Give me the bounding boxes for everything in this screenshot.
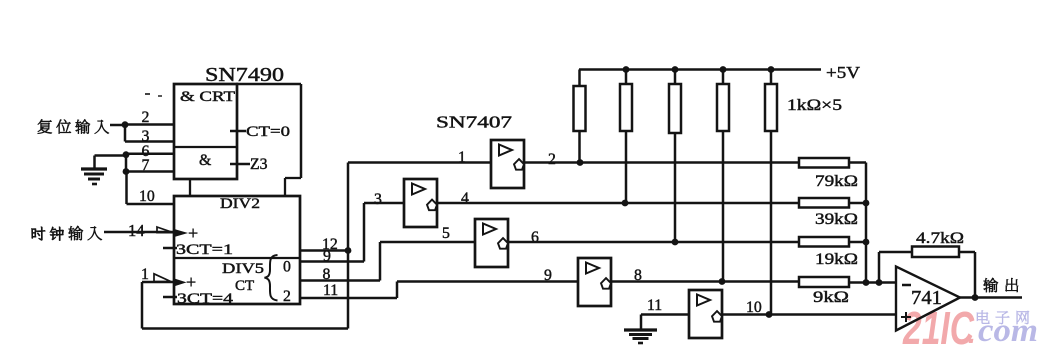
label output 0 <box>283 259 291 276</box>
junction reset/pin2 <box>122 121 129 128</box>
node: output label 输出 <box>983 278 1018 292</box>
svg-text:11: 11 <box>323 282 338 299</box>
value label 9kΩ <box>813 289 849 306</box>
wire pins 6-7 link <box>125 154 128 172</box>
label & <box>199 152 211 169</box>
pin label 14 <box>128 221 145 240</box>
svg-text:2: 2 <box>548 151 556 168</box>
junction rail R2 <box>623 66 630 73</box>
wire buffer b output <box>437 202 800 205</box>
label output 2 <box>283 288 291 305</box>
junction QA feedback <box>345 247 352 254</box>
pin label 9 buffer d in <box>544 267 552 284</box>
svg-text:Z3: Z3 <box>250 156 268 173</box>
junction R4 pullup <box>719 278 726 285</box>
wire reset label to junction <box>110 124 125 127</box>
junction pin7 <box>123 168 130 175</box>
wire buffer c output <box>508 241 800 244</box>
buffer U2a SN7407 box <box>491 140 524 188</box>
svg-text:741: 741 <box>911 287 942 309</box>
pin label 10 buffer e out <box>746 299 762 316</box>
svg-text:19kΩ: 19kΩ <box>815 251 858 268</box>
svg-text:.: . <box>968 318 976 349</box>
pin label 3 <box>142 128 150 145</box>
label 741 <box>911 287 942 309</box>
buffer U2e SN7407 box <box>689 290 722 338</box>
value label 19kΩ <box>815 251 858 268</box>
label + pin14 <box>188 223 198 243</box>
wire buffer d input <box>397 280 578 283</box>
node: reset input label 复位输入 <box>38 119 109 133</box>
wire buffer c input <box>380 241 475 244</box>
pin label 7 <box>142 157 150 174</box>
wire pin 9 QB <box>300 203 364 262</box>
label DIV5 <box>222 261 264 277</box>
resistor R2 1k pullup <box>620 70 632 204</box>
pin tick CT=0 <box>230 130 246 133</box>
wire summing bus vertical <box>865 163 868 283</box>
pin label 4 buffer b out <box>461 190 469 207</box>
label & CRT <box>180 89 235 105</box>
svg-text:14: 14 <box>128 221 145 240</box>
buffer U2b SN7407 box <box>404 179 437 227</box>
label + pin1 <box>186 272 196 292</box>
wire pin 3 <box>125 140 175 143</box>
value label 1kΩ×5 <box>787 97 842 114</box>
label 3CT=1 <box>176 242 233 258</box>
label CT <box>235 278 254 294</box>
wire buffer d output <box>611 280 800 283</box>
junction gnd/pin6 <box>123 151 130 158</box>
pin label 9 <box>323 248 331 265</box>
svg-text:3CT=1: 3CT=1 <box>176 242 233 258</box>
resistor R3 1k pullup <box>669 70 681 243</box>
buffer U2d SN7407 box <box>578 258 611 306</box>
speck artifact <box>145 94 162 96</box>
junction rail R4 <box>720 66 727 73</box>
op-amp U3 741 triangle <box>896 267 960 331</box>
pin label 11 <box>323 282 338 299</box>
pin label 2 buffer a out <box>548 151 556 168</box>
svg-text:DIV5: DIV5 <box>222 261 264 277</box>
IC U1 SN7490 counter section <box>174 196 300 304</box>
pin tick 3CT=1 <box>163 247 177 250</box>
junction feedback summing <box>876 279 883 286</box>
svg-text:1: 1 <box>141 266 149 283</box>
wire pin 7 <box>126 170 175 173</box>
svg-text:+: + <box>188 223 198 243</box>
pin label 1 <box>141 266 149 283</box>
power +5V rail <box>579 68 821 71</box>
label +5V <box>826 63 861 82</box>
resistor R4 1k pullup <box>717 70 729 282</box>
wire clock pin 14 <box>104 231 174 234</box>
pin label 3 buffer b in <box>374 191 382 208</box>
svg-text:CT=0: CT=0 <box>246 124 290 140</box>
junction rail R3 <box>672 66 679 73</box>
svg-text:4.7kΩ: 4.7kΩ <box>916 230 964 247</box>
resistor R6 79k <box>799 158 866 168</box>
pin label 12 <box>322 236 338 253</box>
pin label 6 buffer c out <box>531 229 539 246</box>
label 3CT=4 <box>177 291 234 307</box>
junction R3 pullup <box>672 239 679 246</box>
wire pin 12 QA <box>300 249 348 252</box>
pin label 8 <box>323 266 331 283</box>
svg-text:4: 4 <box>461 190 469 207</box>
svg-text:CT: CT <box>235 278 254 294</box>
op-amp inverting input mark <box>902 284 911 287</box>
resistor R9 9k <box>799 277 897 287</box>
IC U1 SN7490 upper reset section <box>174 84 301 196</box>
ground GND2 <box>624 315 657 344</box>
label CT=0 <box>246 124 290 140</box>
op-amp non-inverting input mark <box>901 312 911 322</box>
wire pin7 to pin10 link <box>125 172 128 205</box>
svg-text:10: 10 <box>139 188 155 205</box>
ground GND1 <box>81 156 126 185</box>
wire buffer e output to op-amp + <box>721 313 897 316</box>
wire op-amp output <box>960 296 1022 299</box>
resistor R5 1k pullup <box>765 70 777 315</box>
watermark 电子网 text <box>977 310 1029 324</box>
pin label 2 <box>142 109 150 126</box>
junction output feedback <box>972 294 979 301</box>
wire buffer a input <box>348 161 491 164</box>
resistor R8 19k <box>799 237 866 247</box>
wire pin 8 QC <box>300 242 380 281</box>
wire pin 11 QD <box>300 282 397 299</box>
node: clock input label 时钟输入 <box>31 226 101 241</box>
wire clock pin 1 <box>142 281 174 284</box>
pin tick Z3 <box>230 163 250 166</box>
junction R5 pullup <box>766 311 773 318</box>
brace CT outputs <box>265 255 278 301</box>
junction R2 pullup <box>622 200 629 207</box>
wire buffer e input <box>641 313 689 316</box>
svg-text:DIV2: DIV2 <box>220 196 260 212</box>
svg-text:& CRT: & CRT <box>180 89 235 105</box>
value label 4.7kΩ <box>916 230 964 247</box>
clock arrow pin 1 <box>154 274 187 287</box>
watermark 21IC.com logo <box>902 302 1038 354</box>
svg-text:9kΩ: 9kΩ <box>813 289 849 306</box>
junction bus R7 <box>863 200 870 207</box>
junction rail R5 <box>768 66 775 73</box>
wire pins 2-3 link <box>124 125 127 142</box>
pin label 1 buffer a in <box>458 149 466 166</box>
svg-text:39kΩ: 39kΩ <box>815 211 858 228</box>
wire pin 2 <box>125 123 175 126</box>
pin label 11 buffer e in <box>647 297 662 314</box>
junction bus 9k summing <box>863 279 870 286</box>
junction bus R8 <box>863 239 870 246</box>
wire pin 10 <box>127 203 176 206</box>
svg-text:SN7407: SN7407 <box>436 113 512 132</box>
resistor R1 1k pullup <box>574 70 586 163</box>
junction R1 pullup <box>577 159 584 166</box>
pin label 10 <box>139 188 155 205</box>
svg-text:11: 11 <box>647 297 662 314</box>
svg-text:3CT=4: 3CT=4 <box>177 291 234 307</box>
pin label 5 buffer c in <box>442 225 450 242</box>
svg-text:1kΩ×5: 1kΩ×5 <box>787 97 842 114</box>
label Z3 <box>250 156 268 173</box>
svg-text:5: 5 <box>442 225 450 242</box>
svg-text:79kΩ: 79kΩ <box>815 173 858 190</box>
buffer U2c SN7407 box <box>475 219 508 267</box>
resistor R10 4.7k feedback <box>879 247 975 298</box>
svg-text:2: 2 <box>283 288 291 305</box>
value label 79kΩ <box>815 173 858 190</box>
wire QA to B-input feedback <box>142 163 348 329</box>
svg-text:&: & <box>199 152 211 169</box>
value label 39kΩ <box>815 211 858 228</box>
svg-text:3: 3 <box>374 191 382 208</box>
IC U2 label SN7407 <box>436 113 512 132</box>
label DIV2 <box>220 196 260 212</box>
svg-text:6: 6 <box>531 229 539 246</box>
pin label 6 <box>142 143 150 160</box>
svg-text:+5V: +5V <box>826 63 861 82</box>
wire pin 6 <box>126 153 175 156</box>
svg-text:+: + <box>186 272 196 292</box>
IC U1 label SN7490 <box>205 64 284 86</box>
pin tick 3CT=4 <box>163 296 177 299</box>
svg-text:0: 0 <box>283 259 291 276</box>
wire buffer a output <box>524 161 800 164</box>
pin label 8 buffer d out <box>634 267 642 284</box>
clock arrow pin 14 <box>157 227 188 237</box>
resistor R7 39k <box>799 198 866 208</box>
wire buffer b input <box>364 202 404 205</box>
